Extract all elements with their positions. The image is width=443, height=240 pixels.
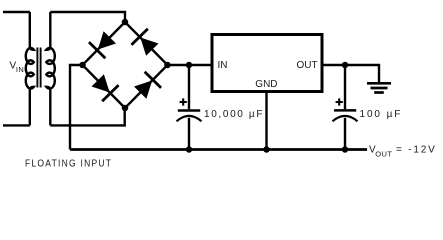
node: rail junction C1 [186, 146, 193, 153]
wire: bridge negative (left vertex) down to output rail [70, 65, 83, 150]
wire: AC input top lead [3, 11, 30, 13]
wire: AC input bottom lead [3, 124, 30, 126]
wire: regulator GND pin to output rail [265, 92, 267, 150]
diode CR2 (bridge bottom-left edge) [74, 57, 133, 116]
svg-text:= -12V: = -12V [396, 145, 437, 156]
node: rail junction GND pin [263, 146, 270, 153]
diode CR3 (bridge top-right edge) [117, 14, 176, 73]
svg-text:OUT: OUT [375, 149, 392, 158]
svg-text:IN: IN [218, 60, 228, 71]
node: bridge bottom vertex [122, 105, 129, 112]
wire: output rail [70, 148, 367, 151]
node: bridge right vertex [164, 62, 171, 69]
wire: bridge positive (right vertex) to regulator IN [168, 64, 213, 66]
wire: secondary top to bridge top vertex [50, 12, 125, 22]
transformer T1 primary winding [26, 12, 34, 125]
node: rail junction C2 [342, 146, 349, 153]
node: output capacitor junction [342, 62, 349, 69]
svg-text:IN: IN [16, 65, 24, 74]
diode CR1 (bridge top-left edge) [74, 14, 133, 73]
node: bridge top vertex [122, 19, 129, 26]
svg-text:FLOATING INPUT: FLOATING INPUT [25, 157, 112, 169]
wire: OUT pin to ground connection [322, 65, 379, 82]
node: bridge left vertex [79, 62, 86, 69]
regulator U1 box [212, 35, 322, 92]
label V_IN [10, 61, 25, 74]
transformer T1 core [37, 48, 40, 88]
svg-text:10,000 µF: 10,000 µF [204, 109, 264, 120]
capacitor C1 (input filter) [177, 65, 202, 150]
ground symbol [367, 83, 391, 92]
wire: secondary bottom to bridge bottom vertex [50, 108, 124, 125]
diode CR4 (bridge bottom-right edge) [117, 57, 176, 116]
label V_OUT = -12V [369, 145, 437, 159]
capacitor C2 (output) [333, 65, 358, 150]
transformer T1 secondary winding [46, 12, 55, 125]
svg-text:OUT: OUT [297, 60, 318, 71]
node: input capacitor junction [186, 62, 193, 69]
svg-text:100 µF: 100 µF [360, 109, 403, 120]
svg-text:GND: GND [255, 79, 277, 90]
